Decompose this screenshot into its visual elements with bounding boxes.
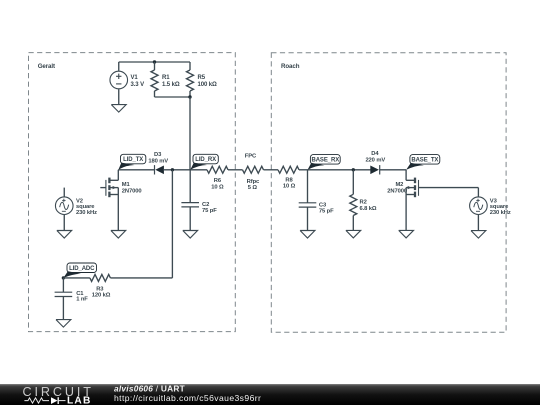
svg-text:BASE_TX: BASE_TX	[411, 158, 438, 164]
svg-text:http://circuitlab.com/c56vaue3: http://circuitlab.com/c56vaue3s96rr	[114, 393, 261, 403]
svg-text:R8: R8	[285, 178, 293, 184]
svg-text:180 mV: 180 mV	[148, 158, 168, 164]
svg-text:1.5 kΩ: 1.5 kΩ	[162, 82, 180, 88]
svg-text:10 Ω: 10 Ω	[211, 184, 224, 190]
svg-text:230 kHz: 230 kHz	[490, 210, 511, 216]
svg-text:M2: M2	[395, 182, 403, 188]
svg-text:M1: M1	[122, 182, 131, 188]
svg-text:Geralt: Geralt	[38, 63, 55, 70]
svg-text:100 kΩ: 100 kΩ	[198, 82, 218, 88]
svg-text:R5: R5	[198, 75, 206, 81]
svg-text:220 mV: 220 mV	[365, 157, 385, 163]
svg-text:FPC: FPC	[245, 153, 257, 159]
svg-text:D3: D3	[154, 152, 162, 158]
svg-text:LID_ADC: LID_ADC	[69, 266, 95, 272]
svg-text:C2: C2	[202, 202, 209, 208]
svg-text:BASE_RX: BASE_RX	[311, 158, 339, 164]
svg-text:R6: R6	[214, 178, 222, 184]
svg-text:10 Ω: 10 Ω	[283, 184, 296, 190]
svg-text:5 Ω: 5 Ω	[248, 185, 258, 191]
svg-text:2N7000: 2N7000	[387, 188, 407, 194]
svg-text:LAB: LAB	[67, 395, 92, 405]
svg-text:230 kHz: 230 kHz	[76, 210, 97, 216]
svg-text:2N7000: 2N7000	[122, 189, 142, 195]
svg-text:75 pF: 75 pF	[319, 209, 334, 215]
svg-text:V1: V1	[131, 75, 139, 81]
svg-text:6.8 kΩ: 6.8 kΩ	[360, 206, 377, 212]
svg-text:LID_TX: LID_TX	[123, 157, 143, 163]
svg-text:C3: C3	[319, 202, 327, 208]
svg-text:R1: R1	[162, 75, 170, 81]
svg-text:R2: R2	[360, 199, 367, 205]
svg-text:Roach: Roach	[281, 63, 300, 70]
svg-text:120 kΩ: 120 kΩ	[92, 293, 111, 299]
svg-text:3.3 V: 3.3 V	[131, 82, 145, 88]
svg-text:75 pF: 75 pF	[202, 208, 217, 214]
svg-text:D4: D4	[371, 151, 379, 157]
svg-text:1 nF: 1 nF	[76, 297, 88, 303]
svg-text:LID_RX: LID_RX	[195, 157, 216, 163]
